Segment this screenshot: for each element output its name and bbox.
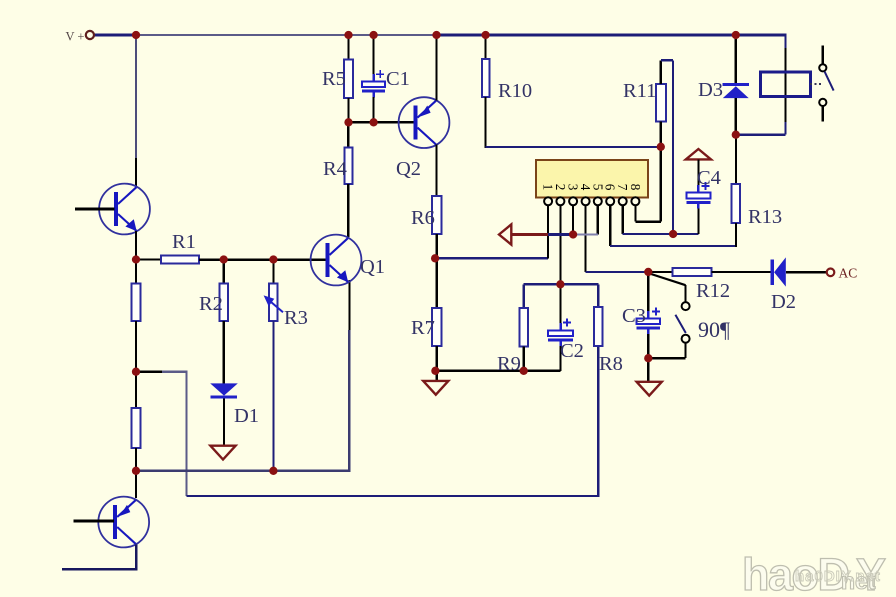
svg-text:V +: V + <box>66 30 85 44</box>
svg-text:R12: R12 <box>696 280 730 302</box>
svg-text:C4: C4 <box>697 167 721 189</box>
svg-text:R7: R7 <box>411 317 435 339</box>
svg-text:Q1: Q1 <box>360 256 385 278</box>
svg-text:8: 8 <box>628 184 643 191</box>
svg-text:D2: D2 <box>771 291 796 313</box>
svg-text:Q2: Q2 <box>396 158 421 180</box>
svg-text:R5: R5 <box>322 68 346 90</box>
svg-text:R4: R4 <box>323 158 347 180</box>
svg-text:90¶: 90¶ <box>698 317 730 342</box>
svg-text:R13: R13 <box>748 206 782 228</box>
svg-text:ha0DIY.net: ha0DIY.net <box>795 568 881 585</box>
svg-text:R1: R1 <box>172 231 196 253</box>
svg-text:R2: R2 <box>199 293 223 315</box>
svg-text:AC: AC <box>839 266 858 281</box>
svg-text:R11: R11 <box>623 80 656 102</box>
svg-text:R10: R10 <box>498 80 532 102</box>
svg-text:C1: C1 <box>386 68 410 90</box>
svg-text:R8: R8 <box>599 353 623 375</box>
svg-text:R3: R3 <box>284 307 308 329</box>
svg-text:R9: R9 <box>497 353 521 375</box>
svg-text:D3: D3 <box>698 79 723 101</box>
svg-text:D1: D1 <box>234 405 259 427</box>
svg-text:C2: C2 <box>560 340 584 362</box>
svg-text:R6: R6 <box>411 207 435 229</box>
svg-text:C3: C3 <box>622 305 646 327</box>
